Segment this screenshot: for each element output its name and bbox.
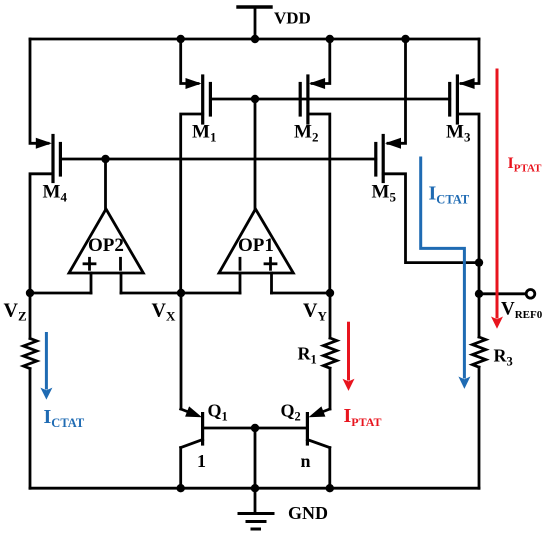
svg-text:VX: VX [152, 300, 176, 324]
transistor M4 [53, 136, 60, 182]
svg-text:1: 1 [197, 451, 206, 471]
resistor R3 [472, 337, 485, 367]
transistor M3 [450, 76, 458, 123]
op-amp OP1 [219, 209, 293, 273]
node M5 drain junction [475, 258, 483, 266]
node base tie on ground rail [251, 484, 259, 492]
node OP2 output on gate rail [101, 155, 109, 163]
wire M3 drain down right column [457, 114, 479, 337]
resistor left (CTAT) [23, 338, 36, 368]
transistor M2 [300, 76, 308, 123]
node Q1 Q2 base tie [251, 424, 259, 432]
wire M5 source feed [388, 39, 406, 143]
svg-text:R3: R3 [494, 346, 513, 369]
wire M1 source feed [181, 39, 198, 84]
terminal Vref0 open circle [526, 290, 535, 299]
svg-text:M2: M2 [294, 122, 318, 145]
wire M1 drain to Vx [181, 114, 203, 293]
node Q1 collector on ground rail [177, 484, 185, 492]
svg-text:Q1: Q1 [208, 401, 228, 424]
wire R1 to Q2 emitter [329, 368, 332, 409]
wire top VDD rail [30, 38, 479, 41]
wire left resistor to ground rail [29, 369, 32, 489]
svg-text:VZ: VZ [4, 300, 27, 324]
wire Vz to OP2 plus [30, 292, 91, 295]
svg-text:M4: M4 [43, 182, 68, 205]
wire upper gate rail M1-M2-M3 [210, 98, 449, 101]
transistor Q2 [307, 409, 329, 448]
wire M2 drain to Vy [308, 114, 330, 293]
annotation arrow Iptat right [496, 70, 499, 317]
svg-text:M1: M1 [192, 122, 216, 145]
OP1 minus mark (rotated) [239, 258, 242, 269]
wire Vx to OP1 minus [181, 292, 240, 295]
wire OP1 plus to Vy [272, 292, 331, 295]
transistor M1 [203, 76, 211, 123]
svg-text:OP2: OP2 [88, 235, 124, 256]
wire Vref0 node horizontal [479, 292, 526, 295]
wire Q1 collector to ground rail [179, 448, 182, 489]
wire R3 to ground rail [478, 367, 481, 488]
svg-text:R1: R1 [298, 344, 317, 367]
wire M4 source feed [30, 39, 48, 143]
wire M4 drain to Vz [30, 174, 53, 293]
node Vy [326, 289, 334, 297]
OP2 minus mark (rotated) [119, 258, 122, 269]
wire M5 drain to Vref column [383, 174, 479, 263]
node M5 source on rail [401, 35, 409, 43]
svg-text:VREF0: VREF0 [501, 299, 543, 322]
node VDD on rail [251, 35, 259, 43]
svg-text:ICTAT: ICTAT [429, 183, 470, 207]
wire OP2 input stubs [91, 273, 121, 293]
OP1 plus mark [265, 258, 276, 269]
svg-text:IPTAT: IPTAT [344, 405, 382, 429]
wire OP1 output [254, 99, 257, 209]
wire base node down to ground rail [254, 428, 257, 488]
node M2 source on rail [326, 35, 334, 43]
node OP1 output on gate rail [251, 95, 259, 103]
node Vref0 junction [475, 290, 483, 298]
VDD supply symbol [238, 7, 271, 39]
svg-text:IPTAT: IPTAT [508, 155, 543, 175]
svg-text:VDD: VDD [274, 9, 311, 28]
node M1 source on rail [177, 35, 185, 43]
svg-text:GND: GND [288, 503, 328, 523]
wire M2 source feed [312, 39, 330, 84]
transistor Q1 [181, 409, 203, 448]
annotation arrow Ictat right [421, 158, 465, 377]
OP2 plus mark [84, 258, 95, 269]
node Vz [26, 289, 34, 297]
wire OP2 minus to Vx [121, 292, 181, 295]
op-amp OP2 [69, 209, 143, 273]
wire Q2 base to node [255, 427, 307, 430]
wire Q2 collector to ground rail [328, 448, 331, 489]
transistor M5 [376, 136, 383, 182]
wire Q1 base to node [203, 427, 255, 430]
annotation arrow Iptat middle [347, 323, 350, 379]
svg-text:n: n [301, 451, 311, 471]
svg-text:M3: M3 [446, 122, 471, 145]
svg-text:OP1: OP1 [238, 235, 274, 256]
wire M3 source feed [461, 39, 479, 84]
svg-text:Q2: Q2 [281, 401, 301, 424]
resistor R1 [323, 338, 336, 368]
annotation arrow Ictat left [45, 334, 48, 389]
node Vx [177, 289, 185, 297]
svg-text:VY: VY [303, 300, 327, 324]
wire OP2 output [104, 159, 107, 209]
wire Vx down to Q1 [180, 293, 183, 409]
node Q2 collector on ground rail [326, 484, 334, 492]
wire Vy down to R1 [329, 293, 332, 338]
wire bottom ground rail [30, 487, 479, 490]
wire lower gate rail M4-M5 [60, 158, 375, 161]
ground symbol [239, 488, 273, 529]
svg-text:M5: M5 [372, 182, 397, 205]
wire Vz down to resistor [29, 293, 32, 338]
svg-text:ICTAT: ICTAT [44, 406, 85, 430]
wire OP1 input stubs [240, 273, 272, 293]
